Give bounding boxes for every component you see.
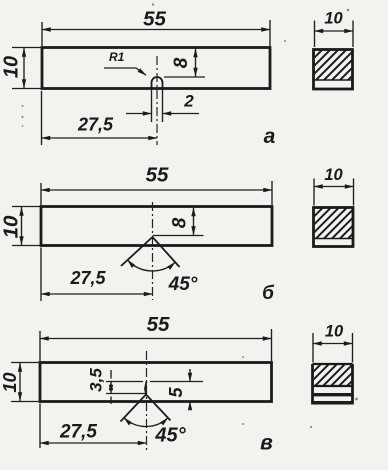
crack slit (v) [145, 382, 147, 395]
section b notch line [314, 238, 353, 240]
dimension 5 (v) [189, 369, 191, 409]
extension lines for 55 (b) [41, 181, 272, 205]
dimension line 27,5 (a) [42, 137, 158, 139]
svg-text:3,5: 3,5 [87, 368, 106, 392]
section b dimension 10 [314, 186, 354, 188]
svg-text:5: 5 [166, 387, 186, 398]
leader R1 [104, 50, 146, 75]
centerline of notch a [156, 56, 158, 145]
V-notch of bar b [121, 237, 180, 267]
centerline of notch b [152, 202, 154, 300]
V-notch legs (v) [121, 395, 171, 422]
bar v outline [40, 363, 272, 402]
svg-text:б: б [262, 283, 275, 304]
svg-text:55: 55 [146, 164, 169, 187]
dimension line 55 (v) [40, 338, 272, 340]
svg-text:55: 55 [147, 313, 170, 336]
extension lines for 10 (b) [12, 207, 40, 246]
svg-text:10: 10 [325, 323, 344, 341]
section v bottom band [313, 401, 353, 405]
section b outline [314, 208, 354, 247]
section v dimension 10 [313, 343, 353, 345]
svg-text:2: 2 [183, 92, 194, 111]
dimension line 55 (a) [42, 29, 270, 31]
dimension line 27,5 (b) [41, 293, 153, 295]
extension line left (27,5 b) [40, 248, 42, 302]
scan specks [21, 3, 358, 428]
section a hatching [283, 48, 380, 81]
section v hatching [290, 363, 370, 387]
centerline of notch v [146, 351, 148, 453]
svg-text:10: 10 [1, 56, 23, 78]
extension line notch root (b) [153, 235, 204, 237]
section v extension lines [313, 333, 353, 363]
dimension line 8 (b) [193, 208, 195, 236]
section b extension lines [314, 179, 354, 206]
45 degree arc (b) [128, 260, 176, 271]
dimension line 10 (a) [23, 48, 25, 88]
dimension line 55 (b) [41, 189, 272, 191]
U-notch of bar a (R1) [152, 77, 163, 90]
extension line notch apex (v) [106, 393, 146, 395]
svg-text:в: в [260, 432, 273, 455]
extension line crack top (v) [106, 381, 203, 383]
section a extension lines [315, 21, 354, 48]
section a dimension 10 [315, 30, 354, 32]
svg-text:27,5: 27,5 [59, 422, 97, 443]
svg-text:27,5: 27,5 [77, 115, 114, 135]
dimension line 10 (b) [21, 207, 23, 245]
bar a outline [42, 48, 270, 89]
svg-text:10: 10 [0, 215, 23, 238]
svg-text:R1: R1 [109, 50, 125, 64]
svg-text:10: 10 [324, 166, 343, 184]
svg-text:10: 10 [324, 10, 343, 28]
section v middle band [313, 393, 352, 396]
45 degree arc (v) [124, 418, 168, 427]
extension line notch root (a) [164, 76, 205, 78]
dimension line 8 (a) [195, 49, 197, 77]
dimension line 10 (v) [19, 363, 21, 401]
section v hatch bottom line [314, 385, 352, 387]
dimension 2 arrows (a) [126, 113, 199, 115]
section a outline [314, 50, 353, 90]
svg-text:45°: 45° [154, 425, 186, 447]
section b hatching [283, 207, 380, 240]
svg-text:45°: 45° [168, 274, 198, 295]
extension line left (27,5 v) [39, 404, 41, 449]
extension lines for 10 (a) [12, 48, 41, 89]
dimension 3,5 (v) [110, 370, 112, 404]
notch width extension lines (a) [152, 90, 163, 123]
svg-text:8: 8 [170, 217, 191, 228]
dimension line 27,5 (v) [40, 442, 147, 444]
svg-text:27,5: 27,5 [69, 268, 106, 288]
svg-text:55: 55 [143, 8, 166, 31]
bar b outline [41, 207, 272, 246]
extension lines for 55 (v) [40, 329, 272, 361]
svg-text:10: 10 [0, 372, 20, 392]
extension line left (27,5 a) [41, 91, 43, 145]
section v top and side edges [313, 364, 353, 405]
svg-text:8: 8 [171, 57, 192, 68]
extension lines for 55 (a) [42, 20, 270, 46]
section a notch line [314, 79, 353, 81]
svg-text:а: а [264, 125, 276, 148]
extension lines for 10 (v) [11, 363, 39, 402]
